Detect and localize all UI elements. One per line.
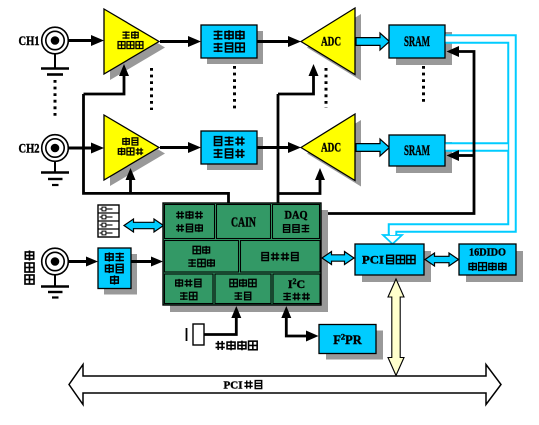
wire dotted ellipsis below SRAM1: [422, 66, 425, 102]
op-amp A1 programmable amplifier (CH1): [110, 15, 165, 80]
wire I2C to F2PR: [286, 317, 306, 336]
svg-text:F2PR: F2PR: [333, 332, 363, 348]
wire dotted ellipsis below U1: [325, 68, 328, 108]
wire A2 to filter: [160, 146, 190, 149]
ADC U2 (CH2): [307, 120, 361, 187]
filter F2 anti-aliasing (CH2): [207, 137, 263, 170]
block CAIN cell: [217, 205, 271, 239]
wire shaper to trigger controller: [131, 260, 153, 263]
crystal Y1: [186, 328, 188, 341]
wire A1 to filter: [160, 40, 190, 43]
connector J3 multi-card sync header: [98, 205, 119, 237]
wire DAQ to ADCs vertical: [277, 94, 280, 203]
block I2C controller cell: [273, 274, 320, 304]
bus SRAM1/SRAM2 to PCI controller (hollow cyan channel): [393, 39, 513, 236]
block multi-card sync bus cell: [165, 205, 215, 239]
connector J4 external trigger BNC: [42, 248, 69, 275]
block trigger controller cell: [165, 241, 239, 273]
block trigger shaper: [104, 254, 137, 295]
ground CH2: [54, 161, 56, 172]
node reference clock label: [216, 341, 225, 350]
wire F2 to ADC2: [257, 146, 290, 149]
wire DAQ control to U2: [278, 180, 320, 194]
wire trigger to shaper: [69, 260, 89, 263]
bus PCI (big hollow double arrow): [69, 365, 501, 405]
svg-text:16DIDO: 16DIDO: [469, 247, 506, 259]
wire PCI to 16DIDO cyan double arrow: [425, 253, 459, 266]
svg-text:ADC: ADC: [321, 34, 341, 49]
wire multi-card sync cyan double arrow: [124, 219, 164, 232]
block internal clock sync cell: [165, 274, 214, 304]
memory SRAM2: [396, 142, 452, 173]
bus arrowhead into PCI controller: [383, 235, 402, 244]
block bus logic cell: [241, 241, 321, 273]
connector J1 CH1 BNC: [42, 27, 69, 54]
svg-text:CAIN: CAIN: [231, 215, 256, 230]
wire CH1 to amplifier: [69, 39, 94, 42]
op-amp A2 programmable amplifier (CH2): [110, 121, 165, 186]
wire crystal to clock unit: [204, 318, 236, 335]
wire ADC to SRAM cyan block arrow (CH1): [356, 33, 390, 50]
ground CH1: [54, 54, 56, 68]
wire dotted ellipsis below A1: [150, 68, 153, 110]
wire CH2 to amplifier: [69, 147, 94, 150]
memory SRAM1: [396, 32, 452, 65]
svg-text:PCI: PCI: [362, 253, 384, 267]
svg-text:I2C: I2C: [288, 277, 305, 291]
wire ADC2 to SRAM2 cyan block arrow: [356, 139, 390, 156]
wire dotted channel ellipsis below CH1: [54, 80, 57, 117]
wire CAIN to amplifiers: [84, 94, 229, 203]
chip F2PR: [326, 331, 383, 360]
wire gain control to A2: [129, 179, 132, 193]
wire dotted ellipsis below F1: [233, 66, 236, 110]
connector J2 CH2 BNC: [42, 135, 69, 162]
ground external trigger: [54, 275, 56, 286]
block U3 main control logic (green): [170, 210, 328, 312]
block 16DIDO digital interface: [466, 251, 523, 282]
wire F1 to ADC: [257, 40, 290, 43]
ADC U1 (CH1): [307, 14, 361, 81]
node external trigger label: [25, 250, 33, 260]
svg-text:PCI: PCI: [224, 381, 243, 392]
svg-text:CH1: CH1: [19, 34, 40, 48]
filter F1 anti-aliasing (CH1): [207, 31, 263, 64]
wire bus-logic to PCI controller cyan double arrow: [322, 252, 354, 265]
wire DAQ controller to SRAM1/SRAM2: [321, 52, 474, 214]
wire DAQ control to U1: [278, 76, 314, 94]
block internal clock unit cell: [215, 274, 271, 304]
block DAQ controller cell: [273, 205, 320, 239]
svg-text:SRAM: SRAM: [404, 34, 430, 50]
chip PCI controller: [362, 251, 431, 282]
svg-text:ADC: ADC: [321, 140, 341, 155]
wire gain control to A1: [84, 76, 125, 94]
svg-text:CH2: CH2: [19, 142, 40, 156]
svg-text:DAQ: DAQ: [285, 210, 308, 222]
wire PCI controller to PCI bus yellow double arrow: [388, 279, 404, 376]
svg-text:SRAM: SRAM: [404, 143, 430, 159]
